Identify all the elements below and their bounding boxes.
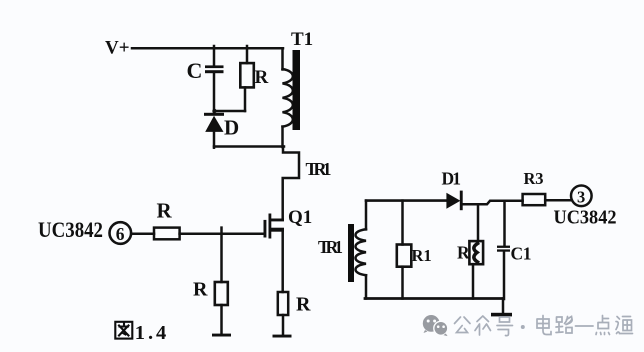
transformer TR1 core [348, 224, 354, 282]
resistor R adjustable [469, 241, 483, 264]
pin 6 circle [110, 222, 132, 244]
winding TR1 primary jog [283, 147, 299, 219]
svg-text:6: 6 [116, 224, 125, 244]
svg-text:D: D [224, 116, 239, 140]
wire primary bottom rail [214, 145, 284, 148]
svg-text:TR1: TR1 [318, 237, 343, 257]
wire T1 primary bottom lead [281, 127, 284, 147]
svg-text:R3: R3 [524, 169, 544, 188]
transistor Q1 [264, 214, 285, 239]
resistor R source sense [278, 292, 288, 315]
diode D1 cathode bar [460, 191, 463, 211]
svg-text:R: R [193, 279, 208, 301]
wire post-diode rail [463, 201, 523, 205]
wire Q1 source lead [281, 230, 284, 292]
svg-text:T1: T1 [291, 29, 313, 50]
watermark text gong [455, 317, 471, 333]
diode D [205, 116, 223, 132]
resistor R adjustable wiper mark [474, 244, 478, 263]
svg-text:R: R [296, 294, 311, 316]
watermark logo small bubble [434, 321, 448, 336]
wire capacitor to diode [213, 73, 216, 114]
watermark text zhong [475, 316, 491, 335]
wire R1 top lead [401, 201, 404, 245]
watermark text tong [616, 317, 633, 334]
watermark text hao [497, 317, 513, 336]
wire C1 top lead [503, 201, 506, 246]
transformer T1 core [293, 50, 301, 130]
diode D1 [446, 193, 460, 209]
svg-text:R: R [255, 67, 269, 88]
wire V+ top rail [132, 47, 283, 50]
svg-text:Q1: Q1 [288, 207, 312, 228]
svg-text:V+: V+ [105, 38, 130, 59]
resistor R1 [397, 245, 412, 267]
wire gate resistor to Q1 gate [180, 233, 264, 236]
wire T1 primary top lead [281, 48, 284, 69]
wire capacitor top lead [213, 46, 216, 66]
wire R3 to pin 3 [545, 199, 571, 202]
wire sense resistor bottom lead [282, 315, 285, 335]
terminal bar left [212, 334, 231, 337]
wire gate pulldown drop [220, 228, 223, 282]
svg-text:UC3842: UC3842 [38, 217, 103, 242]
watermark text dian2 [596, 316, 610, 335]
resistor R gate pulldown [215, 282, 228, 305]
winding TR1 secondary [356, 229, 367, 275]
wire resistor R bottom lead [244, 87, 247, 111]
wire resistor R top lead [246, 46, 249, 63]
figure label glyph tu [115, 322, 132, 339]
svg-text:R1: R1 [412, 246, 432, 265]
watermark text yi [576, 325, 594, 327]
pin 3 circle [571, 186, 592, 207]
wire diode bottom lead [213, 132, 216, 148]
wire snubber junction horizontal [214, 110, 245, 113]
wire pot bottom lead [472, 264, 475, 298]
svg-text:C1: C1 [511, 244, 532, 264]
wire secondary top rail [366, 199, 446, 202]
svg-text:R: R [457, 243, 470, 263]
ground [491, 313, 512, 317]
watermark text dian [537, 316, 551, 335]
diode D cathode bar [204, 113, 224, 116]
watermark text dot [521, 325, 525, 329]
svg-text:UC3842: UC3842 [554, 207, 617, 229]
resistor R gate series [154, 228, 180, 240]
watermark logo big bubble [423, 315, 440, 333]
wire R1 bottom lead [401, 267, 404, 299]
svg-text:1.4: 1.4 [135, 322, 167, 344]
svg-text:3: 3 [577, 188, 585, 207]
wire ground drop [502, 299, 505, 313]
wire pulldown bottom lead [220, 305, 223, 334]
svg-text:D1: D1 [442, 169, 462, 189]
svg-text:R: R [157, 199, 173, 223]
junction dot snubber [212, 109, 216, 113]
resistor R snubber [240, 63, 254, 87]
terminal bar right [273, 335, 292, 338]
wire pot top lead [477, 204, 480, 241]
resistor R3 [523, 194, 546, 205]
capacitor C [205, 65, 224, 73]
wire secondary bottom rail [365, 297, 503, 300]
transformer T1 primary winding [283, 69, 293, 127]
wire TR1 secondary top lead [365, 201, 368, 230]
svg-text:TR1: TR1 [306, 159, 332, 179]
capacitor C1 [497, 246, 510, 252]
watermark text lu [556, 317, 572, 334]
svg-text:C: C [187, 58, 203, 83]
wire TR1 secondary bottom lead [365, 275, 368, 298]
wire C1 bottom lead [503, 252, 506, 299]
wire pin6 to gate resistor [131, 233, 154, 236]
